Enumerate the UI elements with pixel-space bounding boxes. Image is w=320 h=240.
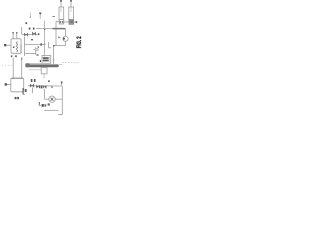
- svg-text:FIG. 2: FIG. 2: [77, 36, 83, 48]
